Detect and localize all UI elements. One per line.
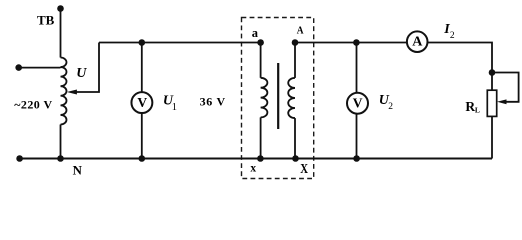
wire: wiper to top rail [76,43,100,93]
svg-text:x: x [250,162,256,174]
wire: RL bottom lead [491,116,493,158]
resistor RL body [487,90,496,116]
wiper arrow of autotransformer [67,90,77,95]
wire: TB top stub [60,9,62,58]
voltmeter V2 [347,93,368,114]
node winding bottom junction [57,155,64,162]
svg-text:a: a [252,26,259,40]
wire: secondary top rail left of ammeter [295,42,407,44]
wire: V2 upper lead [356,43,358,93]
wire: left input to winding tap [19,67,61,69]
wiper arrow of rheostat RL [497,99,507,104]
node x terminal [257,155,264,162]
wire: rheostat wiper loop [492,73,519,102]
wire: secondary top rail right of ammeter [428,43,493,91]
transformer primary winding [261,78,268,118]
svg-text:A: A [297,25,304,37]
node A terminal [292,39,299,46]
transformer core [277,63,279,129]
svg-text:36 V: 36 V [200,95,226,109]
voltmeter V1 [131,92,152,113]
node rheostat tap junction [489,69,496,76]
svg-text:1: 1 [172,102,177,113]
wire: bottom rail N [20,158,492,160]
svg-text:N: N [73,164,82,178]
wire: primary top rail [99,42,261,44]
ammeter A1 [407,31,428,52]
svg-text:2: 2 [450,31,455,41]
dashed enclosure (transformer T) [242,18,314,179]
node X terminal [292,155,299,162]
node junction top of V2 [353,39,360,46]
svg-text:~220 V: ~220 V [14,97,52,111]
node bottom-left terminal [16,155,23,162]
svg-text:U: U [76,66,87,81]
wire: V1 lower lead [141,113,143,158]
svg-text:L: L [475,106,480,115]
node left input terminal [15,64,22,71]
svg-text:2: 2 [388,102,393,112]
svg-text:V: V [353,96,363,111]
node junction bottom of V1 [139,155,146,162]
wire: X stub [294,118,296,158]
autotransformer winding T1 [61,58,67,125]
svg-text:A: A [412,34,423,49]
svg-text:R: R [465,99,475,114]
node TB terminal [57,5,64,12]
svg-text:X: X [300,162,308,177]
wire: a stub [260,43,262,78]
svg-text:V: V [137,95,147,110]
node a terminal [257,39,264,46]
svg-text:TB: TB [37,12,55,27]
wire: V2 lower lead [356,114,358,159]
node junction top of V1 [139,39,146,46]
wire: winding bottom to N [60,125,62,159]
wire: x stub [260,117,262,158]
transformer secondary winding [288,78,295,118]
wire: A stub [294,43,296,78]
wire: V1 upper lead [141,43,143,93]
node junction bottom of V2 [353,155,360,162]
